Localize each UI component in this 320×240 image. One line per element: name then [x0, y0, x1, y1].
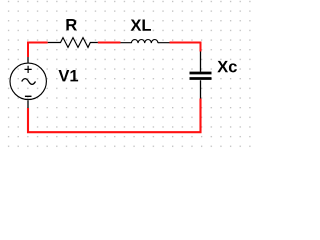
wire: resistor R to inductor XL (red): [98, 42, 121, 44]
wire: inductor XL right and down to capacitor Xc (red): [170, 43, 201, 52]
label V1: [59, 70, 79, 81]
label XL: [131, 19, 151, 30]
resistor R: [48, 38, 98, 48]
label Xc: [217, 61, 237, 73]
wire: capacitor Xc bottom, along bottom, up to V1 minus terminal (red): [28, 99, 201, 133]
wire: V1 plus terminal up and right to resistor R (red): [28, 43, 48, 58]
AC source V1: [10, 57, 46, 108]
inductor XL: [121, 40, 170, 44]
capacitor Xc: [190, 52, 212, 99]
label R: [66, 19, 76, 30]
